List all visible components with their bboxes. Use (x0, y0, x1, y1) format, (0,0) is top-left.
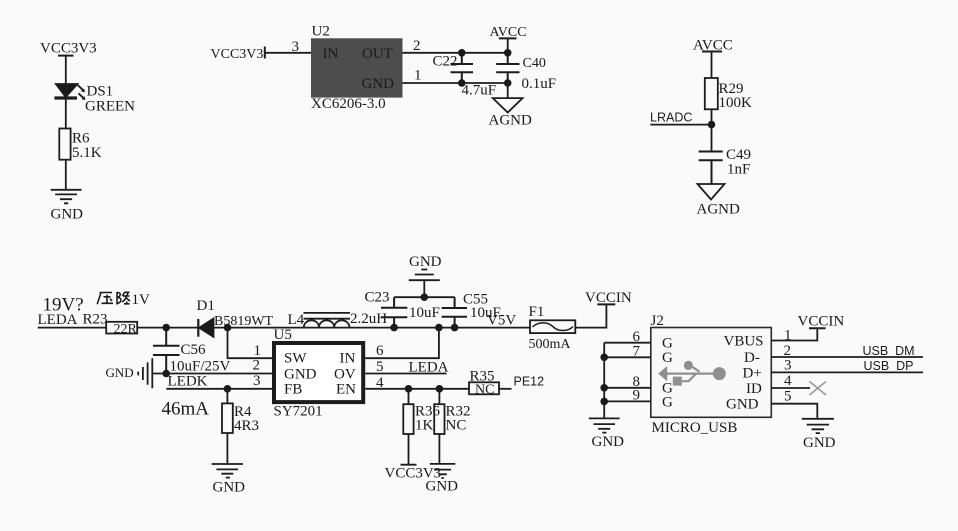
svg-text:NC: NC (446, 418, 467, 434)
svg-text:GND: GND (362, 76, 395, 92)
svg-text:OV: OV (334, 367, 356, 383)
resistor R32 (438, 389, 440, 404)
svg-text:C40: C40 (523, 56, 546, 71)
junction node top bar (421, 293, 429, 301)
svg-text:OUT: OUT (362, 46, 393, 62)
svg-text:IN: IN (340, 351, 356, 367)
svg-text:1K: 1K (415, 418, 434, 434)
svg-text:DS1: DS1 (87, 84, 114, 100)
svg-text:AGND: AGND (489, 113, 532, 129)
svg-text:USB_DP: USB_DP (864, 359, 914, 373)
svg-text:VBUS: VBUS (724, 334, 764, 350)
wire pin 1 VBUS to VCCIN (771, 328, 817, 340)
svg-text:VCC3V3: VCC3V3 (211, 47, 264, 62)
ground (below R32) (438, 434, 440, 464)
svg-text:XC6206-3.0: XC6206-3.0 (311, 96, 386, 112)
svg-text:AGND: AGND (697, 202, 740, 218)
svg-text:VCCIN: VCCIN (798, 314, 845, 330)
label R23 (83, 312, 108, 328)
junction node (C56 tap) (162, 324, 170, 332)
svg-text:LEDK: LEDK (168, 374, 208, 390)
power flag AVCC (right section) (693, 38, 733, 54)
svg-text:MICRO_USB: MICRO_USB (652, 420, 738, 436)
junction node SW (224, 324, 232, 332)
svg-text:LEDA: LEDA (38, 312, 78, 328)
svg-text:GND: GND (213, 480, 246, 496)
wire pin 4 ID no-connect (771, 387, 810, 389)
net label LRADC (650, 111, 692, 125)
svg-text:100K: 100K (719, 95, 753, 111)
wire to AGND (507, 83, 509, 98)
capacitor C23 (381, 297, 407, 327)
wire pin 3 D+ net USB_DP (771, 371, 923, 373)
svg-text:GND: GND (592, 434, 625, 450)
wire LED to R6 (65, 98, 67, 129)
power flag VCC3V3 top-left (40, 41, 97, 57)
junction node LRADC (708, 121, 716, 129)
net label LEDK (168, 374, 208, 390)
svg-text:EN: EN (336, 382, 356, 398)
annotation 19V? (43, 295, 84, 316)
capacitor C55 (442, 297, 467, 327)
wire pin 7 G (604, 356, 651, 358)
svg-text:10uF: 10uF (409, 305, 440, 321)
svg-text:6: 6 (376, 343, 384, 359)
power flag VCCIN (right) (798, 314, 845, 330)
svg-text:D1: D1 (197, 298, 215, 314)
svg-text:ID: ID (746, 381, 762, 397)
junction node FB (224, 385, 232, 393)
LED DS1 (56, 84, 78, 97)
svg-text:3: 3 (253, 373, 261, 389)
wire AVCC to R29 (711, 52, 713, 79)
resistor R36 (408, 389, 410, 404)
svg-text:0.1uF: 0.1uF (522, 76, 557, 92)
svg-text:GND: GND (51, 207, 84, 223)
svg-text:IN: IN (323, 46, 339, 62)
capacitor C56 (153, 328, 180, 374)
ground (J2 shield) (589, 418, 620, 432)
svg-text:2: 2 (253, 358, 261, 374)
svg-text:3: 3 (784, 358, 792, 374)
no-connect X on ID (810, 382, 827, 396)
svg-text:C23: C23 (365, 290, 390, 306)
ground AGND (right) (698, 184, 725, 200)
svg-text:LRADC: LRADC (650, 111, 692, 125)
connector J2 MICRO_USB (651, 328, 772, 418)
junction node C56/GND row (162, 370, 170, 378)
wire LEDA to R23 (38, 327, 106, 329)
svg-text:10uF/25V: 10uF/25V (170, 359, 231, 375)
junction nodes ground bus (600, 354, 608, 406)
wire R29 to node (711, 109, 713, 151)
resistor R4 (222, 403, 233, 433)
wire pin 6 G (604, 342, 651, 344)
svg-text:V5V: V5V (487, 313, 516, 329)
svg-text:GND: GND (284, 367, 317, 383)
svg-text:LEDA: LEDA (409, 360, 449, 376)
wire F1 to VCCIN (575, 304, 606, 327)
svg-text:C56: C56 (181, 342, 207, 358)
junction nodes on rail (390, 324, 458, 332)
wire U5 pin4 (EN) row (365, 388, 469, 390)
svg-text:J2: J2 (651, 313, 664, 329)
svg-text:G: G (662, 395, 673, 411)
svg-text:2.2uH: 2.2uH (350, 311, 387, 327)
svg-text:U2: U2 (312, 24, 330, 40)
diode D1 B5819WT (cathode left) (197, 319, 199, 337)
resistor R35 (NC) (469, 382, 499, 394)
resistor R29 (705, 78, 718, 109)
wire VCC3V3 to LED (65, 56, 67, 84)
junction dots OUT/GND rails (458, 49, 512, 87)
wire U5 pin5 (OV) with net label LEDA (365, 373, 446, 375)
svg-text:L4: L4 (288, 312, 305, 328)
capacitor C22 (451, 53, 474, 83)
svg-text:SW: SW (284, 351, 307, 367)
svg-text:NC: NC (475, 383, 494, 398)
svg-text:2: 2 (413, 38, 421, 54)
IC U5 SY7201 (274, 343, 363, 402)
power tap VCC3V3 (below R36) (401, 434, 417, 465)
svg-text:1: 1 (414, 68, 422, 84)
net label PE12 (514, 375, 545, 389)
wire down to U5 pin1 (228, 328, 273, 359)
svg-text:SY7201: SY7201 (274, 404, 323, 420)
resistor R6 (59, 129, 70, 160)
top bar C23/C55 (394, 296, 455, 298)
svg-text:GND: GND (106, 365, 134, 380)
inductor L4 2.2uH (304, 320, 350, 327)
svg-text:D-: D- (744, 350, 760, 366)
net label V5V (487, 313, 516, 329)
wire rail down to U5 pin6 (IN) (365, 328, 439, 359)
svg-text:22R: 22R (114, 322, 138, 337)
power flag AVCC above C40 (490, 25, 527, 40)
wire pin 2 OUT (403, 52, 508, 54)
wire pin 9 G (604, 400, 651, 402)
svg-text:U5: U5 (274, 327, 292, 343)
svg-text:46mA: 46mA (162, 399, 210, 420)
svg-text:C22: C22 (433, 54, 458, 70)
svg-text:3: 3 (292, 39, 300, 55)
svg-text:GREEN: GREEN (85, 99, 135, 115)
svg-text:5: 5 (784, 389, 792, 405)
wire LEDK to U5 pin3 (166, 388, 272, 390)
fuse F1 500mA (530, 320, 575, 333)
regulator U2 XC6206-3.0 (311, 38, 403, 97)
svg-text:F1: F1 (529, 304, 545, 320)
svg-text:USB_DM: USB_DM (863, 344, 915, 358)
wire GND stem to top bar (423, 280, 425, 297)
junction nodes EN row (405, 385, 444, 393)
svg-text:PE12: PE12 (514, 375, 545, 389)
svg-text:4R3: 4R3 (234, 418, 259, 434)
annotation 压降1V (CJK drawn as strokes) (97, 292, 130, 305)
svg-text:FB: FB (284, 382, 302, 398)
svg-text:GND: GND (409, 254, 442, 270)
svg-text:GND: GND (726, 397, 759, 413)
svg-text:GND: GND (426, 479, 459, 495)
wire R35 to PE12 (499, 388, 512, 390)
pin numbers J2 left (633, 329, 641, 404)
svg-text:5.1K: 5.1K (72, 145, 102, 161)
wire R4 to GND (226, 433, 228, 464)
ground AGND (U2) (493, 98, 523, 112)
ground GND top-left (51, 190, 82, 204)
svg-text:R35: R35 (470, 369, 495, 385)
wire FB to R4 (226, 389, 228, 404)
svg-text:1V: 1V (132, 292, 151, 308)
capacitor C49 (699, 152, 723, 185)
wire pin 3 to U2 (265, 52, 311, 54)
wire pin 5 GND (771, 404, 817, 419)
svg-text:D+: D+ (743, 366, 762, 382)
capacitor C40 (496, 53, 519, 83)
wire pin 2 D- net USB_DM (771, 356, 923, 358)
svg-text:VCC3V3: VCC3V3 (40, 41, 97, 57)
resistor R23 22R (106, 322, 137, 334)
power flag VCCIN (left) (585, 290, 632, 306)
ground (rotated, U5 GND pin) (106, 365, 134, 380)
port VCC3V3 at U2 input (211, 47, 264, 62)
ground (J2 pin5) (802, 419, 834, 433)
svg-text:GND: GND (803, 435, 836, 451)
wire LRADC (650, 124, 711, 126)
ground (below R4) (212, 464, 243, 478)
wire pin 8 G (604, 387, 651, 389)
wire D1 to L4 (214, 327, 531, 329)
USB icon inside J2 (665, 367, 714, 381)
net label LEDA (38, 312, 78, 328)
svg-text:4: 4 (784, 373, 792, 389)
wire ground bus J2 left (603, 343, 605, 419)
svg-text:G: G (662, 350, 673, 366)
wire pin 1 GND (403, 82, 508, 84)
ground (inverted, above C23/C55) (409, 254, 442, 270)
wire GND row to U5 pin2 (152, 373, 272, 375)
svg-text:4.7uF: 4.7uF (462, 83, 497, 99)
svg-text:1nF: 1nF (727, 162, 750, 178)
wire R6 to GND (65, 160, 67, 190)
svg-text:R23: R23 (83, 312, 108, 328)
svg-text:500mA: 500mA (529, 337, 572, 352)
wire R23 to D1 (137, 327, 198, 329)
pin numbers J2 right (784, 328, 793, 405)
annotation 46mA (162, 399, 210, 420)
